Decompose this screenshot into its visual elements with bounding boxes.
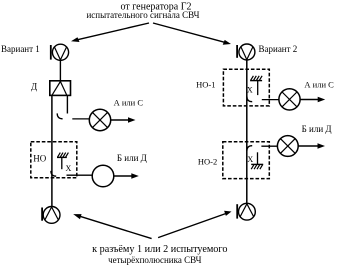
wire: output arrow Б/Д left xyxy=(114,173,139,178)
coax-waveguide transition (bottom right) xyxy=(237,203,255,220)
wire: coupled-arm arc in НО-2 xyxy=(247,146,252,151)
svg-text:Б или Д: Б или Д xyxy=(117,153,147,163)
coax-waveguide transition (bottom left) xyxy=(42,207,60,224)
wire: arrow from generator text to Variant 2 xyxy=(153,23,231,45)
svg-text:X: X xyxy=(66,164,72,173)
mixer indicator A/C left (circle with X) xyxy=(89,109,110,130)
svg-text:Вариант 1: Вариант 1 xyxy=(1,44,40,54)
wire: branch to indicator Б/Д left xyxy=(67,174,93,176)
coax-waveguide transition (Variant 2, top right) xyxy=(237,44,255,60)
svg-text:четырёхполюсника СВЧ: четырёхполюсника СВЧ xyxy=(108,255,202,265)
svg-text:X: X xyxy=(247,155,253,164)
wire: arrow from generator text to Variant 1 xyxy=(71,23,149,42)
matched load in НО-1 (hatched termination) xyxy=(250,76,262,95)
wire: output arrow A/C right xyxy=(300,97,325,102)
wire: right port line below Д box xyxy=(66,96,68,114)
wire: arrow from connector text to bottom-left transition xyxy=(73,214,151,239)
svg-text:испытательного сигнала СВЧ: испытательного сигнала СВЧ xyxy=(86,10,199,20)
wire: main line left column xyxy=(51,96,53,207)
wire: arrow from connector text to bottom-right transition xyxy=(158,211,231,238)
svg-text:А или С: А или С xyxy=(114,97,144,107)
wire: coupled-arm arc below Д box xyxy=(57,113,62,118)
mixer indicator Б/Д right (circle with X) xyxy=(277,136,298,157)
wire: coupled-arm arc in НО-1 xyxy=(247,96,252,101)
directional coupler НО-2 (dashed box) xyxy=(223,142,269,179)
directional coupler НО-1 (dashed box) xyxy=(223,69,269,106)
wire: output arrow A/C left xyxy=(111,117,136,122)
directional coupler НО (dashed box, left) xyxy=(31,142,77,178)
svg-text:Вариант 2: Вариант 2 xyxy=(259,44,298,54)
wire: main line right column xyxy=(246,60,248,204)
svg-text:Д: Д xyxy=(31,82,37,92)
matched load in НО-2 (hatched termination, pointing down) xyxy=(251,152,263,169)
svg-text:к разъёму 1 или 2 испытуемого: к разъёму 1 или 2 испытуемого xyxy=(92,244,227,255)
svg-text:X: X xyxy=(247,85,253,94)
matched load in НО (hatched termination) xyxy=(57,153,68,170)
wire: coupled-arm arc in НО xyxy=(51,171,56,176)
wire: output arrow Б/Д right xyxy=(298,143,325,148)
svg-text:А или С: А или С xyxy=(304,79,334,89)
mixer indicator A/C right (circle with X) xyxy=(279,89,300,110)
svg-text:НО-2: НО-2 xyxy=(198,156,217,166)
wire: branch to mixer A/C left xyxy=(72,118,89,120)
svg-text:Б или Д: Б или Д xyxy=(302,124,332,134)
detector section Д (box with triangle) xyxy=(50,81,71,96)
coax-waveguide transition (Variant 1, top left) xyxy=(51,44,69,60)
svg-text:НО: НО xyxy=(33,154,46,164)
wire: branch to mixer Б/Д right xyxy=(261,145,277,147)
wire: branch to mixer A/C right xyxy=(262,99,279,101)
indicator Б/Д left (empty circle) xyxy=(92,165,114,187)
svg-text:НО-1: НО-1 xyxy=(196,79,215,89)
wire: transition to detector box xyxy=(59,60,61,80)
